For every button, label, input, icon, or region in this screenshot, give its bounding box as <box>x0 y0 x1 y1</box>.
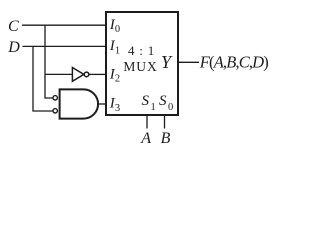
svg-text:1: 1 <box>115 45 120 56</box>
svg-text:1: 1 <box>151 102 156 113</box>
svg-text:MUX: MUX <box>123 59 157 74</box>
svg-text:S: S <box>142 93 150 109</box>
svg-text:B: B <box>161 130 171 147</box>
svg-text:3: 3 <box>115 103 120 114</box>
svg-text:C: C <box>8 18 19 35</box>
svg-text:0: 0 <box>115 24 120 35</box>
svg-text:A: A <box>140 130 151 147</box>
svg-text:F(A,B,C,D): F(A,B,C,D) <box>199 53 268 72</box>
svg-text:0: 0 <box>168 102 173 113</box>
svg-text:S: S <box>159 93 167 109</box>
svg-text:D: D <box>7 39 20 56</box>
svg-text:Y: Y <box>161 52 173 72</box>
svg-text:2: 2 <box>115 74 120 85</box>
svg-text:4 : 1: 4 : 1 <box>128 43 155 58</box>
